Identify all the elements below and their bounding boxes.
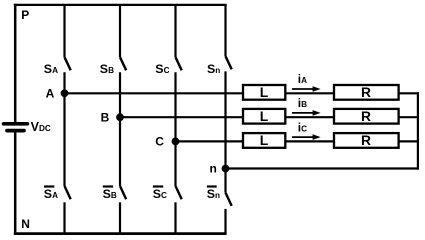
resistor R phase A box <box>334 85 399 100</box>
switch SA blade <box>65 57 71 70</box>
current arrow iA <box>292 88 315 90</box>
node n junction dot <box>222 165 230 173</box>
svg-text:A: A <box>46 86 55 100</box>
switch SA-bar blade <box>65 186 71 199</box>
svg-text:SB: SB <box>100 62 114 76</box>
svg-text:N: N <box>21 217 30 231</box>
svg-text:SA: SA <box>44 187 58 201</box>
svg-text:n: n <box>210 161 217 175</box>
wire: phase B output to load <box>120 116 243 118</box>
wire: phase B between L and R <box>285 116 334 118</box>
wire: negative DC rail (N bus) <box>14 232 227 235</box>
svg-text:P: P <box>21 8 29 22</box>
wire: leg B upper segment from P rail <box>119 4 121 57</box>
wire: leg C upper segment from P rail <box>174 4 176 57</box>
node B junction dot <box>116 113 124 121</box>
battery VDC plate long <box>4 122 28 126</box>
switch SB blade <box>120 57 126 70</box>
svg-text:L: L <box>260 133 268 148</box>
wire: right return bus vertical <box>417 92 419 169</box>
resistor R phase C box <box>334 133 399 148</box>
battery VDC plate short <box>7 129 24 133</box>
svg-text:Sn: Sn <box>207 187 220 201</box>
switch SC blade <box>176 57 182 70</box>
svg-text:R: R <box>361 133 371 148</box>
current arrow iC <box>292 136 315 138</box>
current arrow iB <box>292 112 315 114</box>
switch Sn-bar blade <box>226 193 232 206</box>
switch SC-bar overbar <box>153 185 163 187</box>
node A junction dot <box>61 89 69 97</box>
wire: phase C from R to right bus <box>399 140 419 142</box>
wire: leg n upper segment from P rail <box>224 4 226 56</box>
wire: phase B from R to right bus <box>399 116 419 118</box>
wire: leg n lower segment to N rail <box>224 209 226 234</box>
svg-text:SC: SC <box>153 187 167 201</box>
switch Sn-bar overbar <box>207 185 217 187</box>
svg-text:iA: iA <box>298 72 307 86</box>
inductor L phase C box <box>243 133 285 148</box>
wire: phase A between L and R <box>285 92 334 94</box>
wire: left DC bus upper segment <box>14 4 17 122</box>
resistor R phase B box <box>334 109 399 124</box>
svg-text:L: L <box>260 85 268 100</box>
wire: neutral n to right bus <box>226 167 420 169</box>
switch SA-bar overbar <box>44 185 54 187</box>
wire: leg B lower segment to N rail <box>119 202 121 233</box>
wire: leg C lower segment to N rail <box>174 202 176 233</box>
inductor L phase B box <box>243 109 285 124</box>
wire: phase A from R to right bus <box>399 92 419 94</box>
wire: phase A output to load <box>65 92 244 94</box>
svg-text:L: L <box>260 109 268 124</box>
svg-text:iB: iB <box>298 96 307 110</box>
switch Sn blade <box>226 56 232 69</box>
svg-text:SC: SC <box>155 62 169 76</box>
svg-text:R: R <box>361 85 371 100</box>
svg-text:R: R <box>361 109 371 124</box>
wire: leg A lower segment to N rail <box>63 202 65 233</box>
wire: left DC bus lower segment <box>14 132 17 235</box>
switch SB-bar overbar <box>103 185 113 187</box>
svg-text:VDC: VDC <box>31 120 51 134</box>
svg-text:iC: iC <box>298 120 307 134</box>
svg-text:SA: SA <box>44 62 58 76</box>
wire: leg n middle segment to node n and down <box>224 71 226 192</box>
switch SB-bar blade <box>120 186 126 199</box>
wire: phase C between L and R <box>285 140 334 142</box>
inductor L phase A box <box>243 85 285 100</box>
wire: leg B middle segment to node B and down <box>119 72 121 186</box>
wire: positive DC rail (P bus) <box>14 4 227 6</box>
wire: leg A middle segment to node A and down <box>63 72 65 186</box>
node C junction dot <box>172 138 180 146</box>
wire: leg C middle segment to node C and down <box>174 72 176 186</box>
switch SC-bar blade <box>176 186 182 199</box>
wire: phase C output to load <box>176 140 244 142</box>
svg-text:B: B <box>101 110 110 124</box>
svg-text:Sn: Sn <box>207 62 220 76</box>
svg-text:C: C <box>155 135 164 149</box>
wire: leg A upper segment from P rail <box>63 4 65 57</box>
svg-text:SB: SB <box>103 187 117 201</box>
